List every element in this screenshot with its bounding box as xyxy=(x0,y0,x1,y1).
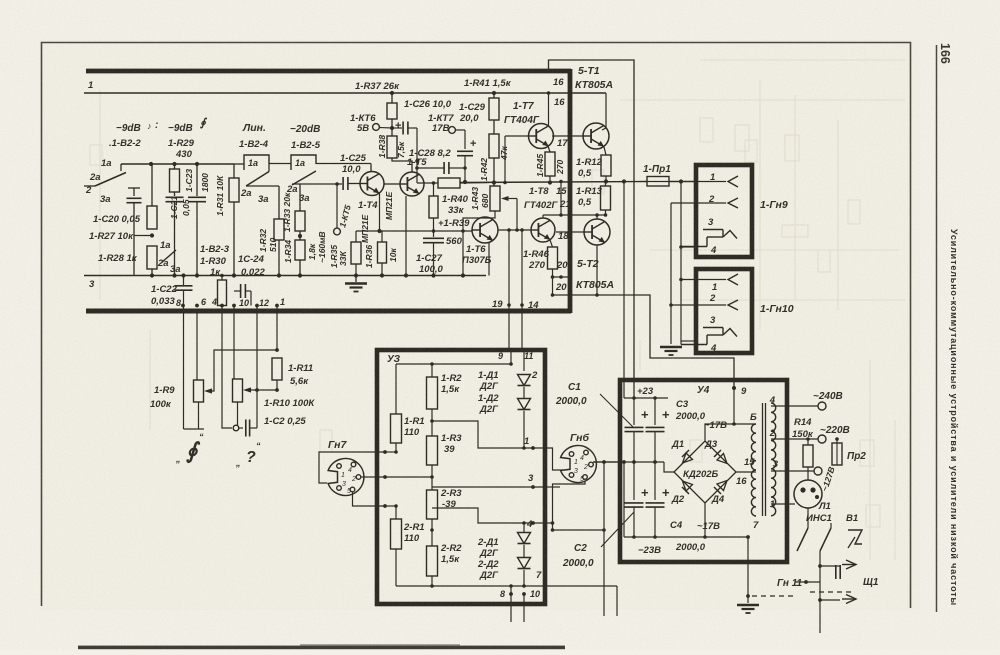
wire bus drops to pots xyxy=(183,306,185,312)
R43 bottom feedback xyxy=(463,211,495,276)
wire pin14 down xyxy=(521,230,523,311)
wire pin14 into U3 xyxy=(521,311,523,350)
Gn7 wires xyxy=(319,452,385,483)
node R32 bottom xyxy=(277,273,281,277)
wire pin19 down xyxy=(508,230,510,311)
bridge right tie xyxy=(736,471,756,473)
node pin14 tap xyxy=(520,228,524,232)
node R28 bottom xyxy=(150,273,154,277)
test point KT5 xyxy=(336,184,338,228)
resistor 1-R2 1,5k xyxy=(431,364,433,377)
switch output node xyxy=(819,551,821,605)
R9 wiper xyxy=(204,388,212,393)
wire C26 to T5 collector node xyxy=(416,128,418,161)
wire connector common vertical A xyxy=(680,182,682,345)
resistor 2-R3 39 xyxy=(431,465,433,490)
resistor R46 270 xyxy=(548,247,558,269)
transistor T5 MP21E xyxy=(400,172,424,196)
diode 1-D2 xyxy=(523,387,525,399)
ground connectors xyxy=(660,346,682,349)
resistor 2-R1 110 xyxy=(395,506,397,519)
transistor T6 P307B xyxy=(472,217,498,243)
connector Gn9 block xyxy=(696,165,752,257)
connector Gn10 block xyxy=(696,269,752,353)
ground at R35 xyxy=(355,276,357,283)
node R34 bottom xyxy=(298,273,302,277)
rail 1 xyxy=(84,92,606,94)
node C27 bottom xyxy=(431,273,435,277)
resistor R38 7,5k xyxy=(387,136,397,158)
U3 left edge taps xyxy=(383,450,387,454)
resistor R45 270 xyxy=(545,152,555,176)
wire T8 collector xyxy=(542,215,544,218)
wire B2-4 wiper xyxy=(246,185,279,187)
capacitor C3 2000,0 xyxy=(654,398,656,425)
resistor R40 33k horizontal xyxy=(438,178,460,188)
diode 2-D1 xyxy=(523,523,525,532)
Gn6 return wire xyxy=(603,462,605,530)
wire T4 emitter down xyxy=(379,194,381,232)
wire B2-4 to B2-5 xyxy=(269,163,291,165)
resistor R11 5,6k xyxy=(272,358,282,380)
capacitor C2 0,25 xyxy=(233,425,239,431)
main output wire xyxy=(460,182,647,183)
transistor T8 GT402G xyxy=(531,218,555,242)
bridge left tie xyxy=(664,462,674,472)
wire 5T2 emitter down xyxy=(604,242,606,295)
node C21 top xyxy=(149,162,153,166)
U3 pin3 path xyxy=(432,486,545,488)
resistor R30 body xyxy=(218,280,227,306)
capacitor C25 xyxy=(342,177,344,190)
wire T8 emitter to R46 xyxy=(550,240,553,247)
switch V1 symbol xyxy=(848,530,862,544)
capacitor C21 xyxy=(166,196,184,198)
winding tap wire bottom xyxy=(736,472,756,513)
wire T5 collector xyxy=(392,158,412,172)
node R33-R34 xyxy=(298,234,302,238)
wire pin19 into U3 xyxy=(508,311,510,350)
capacitor C20 xyxy=(127,197,142,199)
resistor R28 xyxy=(147,246,157,269)
node T4 emitter rail xyxy=(377,229,381,233)
node R42 main wire xyxy=(492,180,496,184)
wire T7 collector to rail1 xyxy=(548,93,550,126)
pin4 wire to C2 terminal xyxy=(222,311,232,428)
resistor R37 xyxy=(391,93,393,103)
node C23 bottom xyxy=(195,273,199,277)
capacitor C27 100,0 xyxy=(423,237,444,239)
capacitor C24 0,022 xyxy=(240,284,242,298)
amplifier unit border top bus xyxy=(86,69,571,74)
bridge diode D4 xyxy=(717,481,727,491)
dashed link to Gn11 xyxy=(752,595,795,597)
U3 pin path to Gn6 xyxy=(545,448,563,470)
node R12 bottom xyxy=(604,179,608,183)
resistor R35 33k xyxy=(355,231,357,242)
wire pot drops xyxy=(183,311,185,429)
wire down from switch xyxy=(819,605,821,633)
node R29 top xyxy=(172,162,176,166)
wire 5T1 base pin17 xyxy=(552,135,583,137)
bridge rectifier KD202B xyxy=(674,441,736,503)
U3 pin1 path xyxy=(432,421,545,448)
capacitor C4 2000,0 xyxy=(654,462,656,500)
-23V rail xyxy=(624,536,748,538)
Gn6 pin2 wire xyxy=(594,462,620,465)
bridge bottom tie xyxy=(704,503,706,537)
emitter bias rail xyxy=(356,230,472,232)
wire rail1 to 5T1 collector xyxy=(602,93,606,130)
resistor 1-R3 39 xyxy=(431,409,433,436)
capacitor C2 2000,0 xyxy=(633,462,635,500)
wire pin9 into transformer xyxy=(733,388,735,424)
amplifier unit border right edge xyxy=(568,69,573,313)
unit U3 block border xyxy=(377,350,545,604)
switch B2-2 contact 3a lead xyxy=(133,188,135,196)
wire -23 feed xyxy=(623,462,625,537)
bottom scan streak xyxy=(78,646,565,650)
resistor R33 20k xyxy=(299,185,301,211)
terminal 220V xyxy=(771,438,818,440)
resistor 1-R1 110 xyxy=(395,364,397,414)
potentiometer R10 100k xyxy=(233,379,243,402)
switch V1 pole B xyxy=(830,523,832,528)
potentiometer R9 100k xyxy=(194,380,204,402)
resistor 2-R2 1,5k xyxy=(431,519,433,546)
resistor R27 xyxy=(151,164,153,206)
collector loop wire xyxy=(549,60,635,398)
U3 bottom rail xyxy=(396,585,534,587)
wire T6 collector to T8 base xyxy=(493,220,531,231)
resistor R12 0,5 xyxy=(601,155,611,176)
ground U4 xyxy=(747,596,749,603)
unit U4 block border xyxy=(620,380,787,562)
transformer primary winding xyxy=(771,403,776,516)
switch B2-5 symbol xyxy=(291,155,316,170)
wire 5T2 collector xyxy=(596,215,598,219)
resistor R14 xyxy=(806,437,810,441)
wire T5 node down to R40 xyxy=(416,161,418,183)
potentiometer R43 680 xyxy=(490,186,500,211)
R13 collector rail xyxy=(543,214,606,216)
R10 wiper xyxy=(243,387,251,392)
wire T7 emitter to R45 xyxy=(548,146,550,152)
wire C20-R27 tie xyxy=(134,235,152,237)
wire 5T2 base pin18 xyxy=(556,231,584,233)
transformer core xyxy=(762,403,764,516)
page frame xyxy=(42,43,911,609)
capacitor across contacts xyxy=(835,565,837,579)
transistor T7 GT404G xyxy=(529,124,554,149)
emitter rail to T6 base xyxy=(434,230,463,232)
resistor R36 10k xyxy=(378,242,387,263)
rail 3 xyxy=(84,275,486,277)
U3 pin7 wire to supply xyxy=(534,585,617,587)
dashed tie xyxy=(810,591,852,593)
node T5 emitter xyxy=(404,273,408,277)
resistor R34 xyxy=(295,240,305,260)
bridge diode D3 xyxy=(717,454,727,464)
resistor R31 xyxy=(233,164,235,178)
node pin15 xyxy=(559,180,563,184)
arrow to speaker Shch1 lower xyxy=(820,599,840,601)
wire 5T1 emitter to R12 xyxy=(604,147,606,155)
switch V1 pole A xyxy=(807,508,809,528)
terminal 127V xyxy=(771,470,814,472)
transformer secondary winding xyxy=(751,424,756,516)
mid rail 0V xyxy=(593,461,664,463)
pin20 wires xyxy=(552,269,554,295)
node R39 stem xyxy=(432,229,436,233)
fuse Pr2 xyxy=(835,437,839,441)
+23 rail xyxy=(624,397,668,399)
transistor T4 MP21E xyxy=(360,172,384,196)
indicator lamp L1 xyxy=(794,480,822,508)
resistor R29 430 xyxy=(174,164,176,169)
node C29 bottom xyxy=(463,180,467,184)
wire pin15 down to R13 rail xyxy=(560,182,562,216)
R43 wiper arrow xyxy=(501,196,509,201)
wire T5 emitter down xyxy=(405,196,407,276)
diode 2-D2 xyxy=(523,545,525,558)
U3 top rail xyxy=(396,363,511,365)
output transistor 5-T2 KT805A xyxy=(584,219,610,245)
resistor R39 560 xyxy=(429,196,438,218)
capacitor C23 xyxy=(196,164,198,196)
wire C25 to T4 base xyxy=(348,183,361,185)
node C23 top xyxy=(195,162,199,166)
amplifier unit border bottom bus xyxy=(86,309,571,314)
node R35 bottom xyxy=(354,273,358,277)
resistor R42 47k xyxy=(489,134,499,158)
node C21 bottom xyxy=(172,273,176,277)
switch B2-4 symbol xyxy=(234,163,244,165)
node R37-R38 xyxy=(391,119,393,136)
wire B2-5 wiper line xyxy=(292,183,342,185)
resistor R41 xyxy=(493,93,495,98)
bridge diode D2 xyxy=(683,481,693,491)
bridge diode D1 xyxy=(683,453,693,463)
diode 1-D1 xyxy=(518,375,531,386)
switch B2-2 top contact wire xyxy=(121,163,234,165)
wire T4-T5 base link xyxy=(384,183,400,185)
terminal 240V xyxy=(771,405,818,407)
node main-collector rail xyxy=(622,179,626,183)
switch B2-2 arm xyxy=(95,173,126,187)
wire B2-5 top to T4 collector rail xyxy=(316,163,371,165)
arrow to speaker Shch1 upper xyxy=(820,565,840,567)
U3 pin4 path xyxy=(432,508,545,523)
node R36 bottom xyxy=(380,273,384,277)
wire +23 feed xyxy=(623,182,625,399)
node R45 bottom xyxy=(548,180,552,184)
node R41-R42 xyxy=(493,120,495,134)
output return wire to supply xyxy=(553,295,735,388)
capacitor C1 2000,0 xyxy=(633,398,635,425)
margin rule xyxy=(936,45,938,612)
wire T4 collector xyxy=(370,164,372,173)
wire T7 base xyxy=(505,135,529,137)
switch B2-2 input wire xyxy=(84,185,95,187)
bridge top tie xyxy=(705,424,756,441)
resistor R32 510 xyxy=(278,186,280,219)
node pin19 tap xyxy=(507,228,511,232)
node R27-R28 xyxy=(150,233,154,237)
wire connector common vertical B xyxy=(670,203,672,344)
wire tap1 to lamp xyxy=(771,500,797,507)
node R31 bottom xyxy=(232,273,236,277)
